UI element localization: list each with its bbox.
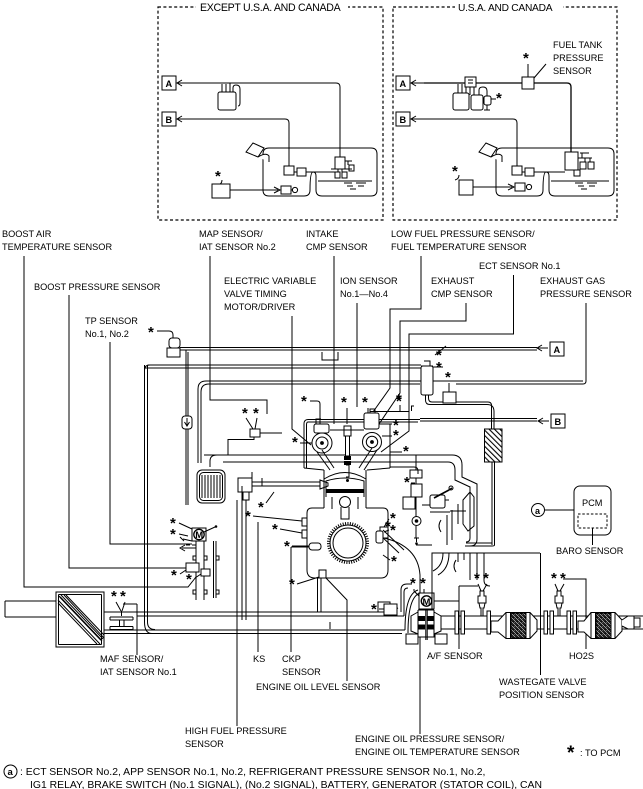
svg-text:No.1—No.4: No.1—No.4: [340, 289, 388, 299]
svg-text:B: B: [166, 115, 173, 125]
svg-text:*: *: [474, 570, 480, 587]
svg-text:M: M: [195, 530, 203, 541]
svg-text:*: *: [391, 553, 397, 570]
svg-text:B: B: [555, 417, 562, 427]
svg-text:*: *: [385, 518, 391, 535]
svg-text:*: *: [404, 474, 410, 491]
svg-text:U.S.A. AND CANADA: U.S.A. AND CANADA: [458, 3, 553, 14]
svg-text:*: *: [289, 576, 295, 593]
svg-text:IAT SENSOR No.2: IAT SENSOR No.2: [199, 242, 276, 252]
svg-text:: ECT SENSOR No.2, APP SENSOR: : ECT SENSOR No.2, APP SENSOR No.1, No.2…: [20, 767, 485, 778]
svg-text:MAP SENSOR/: MAP SENSOR/: [199, 229, 263, 239]
svg-text:POSITION SENSOR: POSITION SENSOR: [499, 690, 585, 700]
svg-text:SENSOR: SENSOR: [553, 66, 592, 76]
svg-text:BOOST PRESSURE SENSOR: BOOST PRESSURE SENSOR: [34, 282, 161, 292]
svg-text:VALVE TIMING: VALVE TIMING: [224, 289, 287, 299]
svg-text:*: *: [301, 393, 307, 410]
svg-text:*: *: [403, 443, 409, 460]
svg-text:EXHAUST GAS: EXHAUST GAS: [540, 276, 605, 286]
svg-text:*: *: [393, 427, 399, 444]
svg-text:BARO SENSOR: BARO SENSOR: [556, 546, 624, 556]
svg-text:*: *: [420, 575, 426, 592]
svg-text:A: A: [166, 79, 173, 89]
svg-text:PRESSURE SENSOR: PRESSURE SENSOR: [540, 289, 632, 299]
svg-text:*: *: [292, 434, 298, 451]
svg-text:*: *: [215, 168, 221, 185]
svg-text:IAT SENSOR No.1: IAT SENSOR No.1: [100, 667, 177, 677]
svg-text:*: *: [452, 163, 458, 180]
svg-text:SENSOR: SENSOR: [185, 739, 224, 749]
svg-text:TEMPERATURE SENSOR: TEMPERATURE SENSOR: [2, 242, 112, 252]
svg-text:EXHAUST: EXHAUST: [431, 276, 475, 286]
svg-text:*: *: [258, 499, 264, 516]
svg-text:*: *: [396, 391, 402, 408]
svg-text:*: *: [567, 743, 575, 764]
svg-text:*: *: [390, 522, 396, 539]
svg-text:*: *: [523, 50, 529, 67]
svg-text:MOTOR/DRIVER: MOTOR/DRIVER: [224, 302, 296, 312]
svg-text:*: *: [560, 570, 566, 587]
svg-text:ENGINE OIL PRESSURE SENSOR/: ENGINE OIL PRESSURE SENSOR/: [355, 734, 505, 744]
svg-text:SENSOR: SENSOR: [282, 667, 321, 677]
svg-text:: TO PCM: : TO PCM: [580, 748, 621, 758]
svg-text:*: *: [170, 526, 176, 543]
svg-text:HO2S: HO2S: [569, 651, 594, 661]
svg-text:A: A: [554, 345, 561, 355]
svg-text:*: *: [371, 601, 377, 618]
svg-text:KS: KS: [253, 654, 265, 664]
svg-text:*: *: [362, 394, 368, 411]
svg-text:*: *: [171, 567, 177, 584]
svg-text:FUEL TEMPERATURE SENSOR: FUEL TEMPERATURE SENSOR: [391, 242, 527, 252]
svg-text:B: B: [400, 115, 407, 125]
svg-text:*: *: [496, 90, 502, 107]
svg-text:ENGINE OIL TEMPERATURE SENSOR: ENGINE OIL TEMPERATURE SENSOR: [355, 747, 520, 757]
svg-text:CMP SENSOR: CMP SENSOR: [431, 289, 493, 299]
svg-text:*: *: [148, 324, 154, 341]
svg-text:*: *: [272, 521, 278, 538]
svg-text:HIGH FUEL PRESSURE: HIGH FUEL PRESSURE: [185, 726, 287, 736]
svg-text:*: *: [483, 570, 489, 587]
svg-text:*: *: [445, 369, 451, 386]
svg-text:ION SENSOR: ION SENSOR: [340, 276, 398, 286]
svg-text:BOOST AIR: BOOST AIR: [2, 229, 52, 239]
svg-text:IG1 RELAY, BRAKE SWITCH (No.1: IG1 RELAY, BRAKE SWITCH (No.1 SIGNAL), (…: [30, 780, 542, 789]
svg-text:A/F SENSOR: A/F SENSOR: [427, 651, 483, 661]
svg-text:PRESSURE: PRESSURE: [553, 53, 604, 63]
svg-text:A: A: [400, 79, 407, 89]
svg-text:CMP SENSOR: CMP SENSOR: [306, 242, 368, 252]
svg-text:EXCEPT U.S.A. AND CANADA: EXCEPT U.S.A. AND CANADA: [200, 2, 342, 14]
svg-text:MAF SENSOR/: MAF SENSOR/: [100, 654, 164, 664]
svg-text:No.1, No.2: No.1, No.2: [85, 329, 129, 339]
svg-text:*: *: [253, 405, 259, 422]
svg-text:FUEL TANK: FUEL TANK: [553, 40, 603, 50]
svg-text:M: M: [423, 597, 431, 608]
svg-text:*: *: [341, 394, 347, 411]
svg-text:LOW FUEL PRESSURE SENSOR/: LOW FUEL PRESSURE SENSOR/: [391, 229, 535, 239]
svg-text:PCM: PCM: [582, 498, 602, 508]
svg-text:ECT SENSOR No.1: ECT SENSOR No.1: [479, 261, 561, 271]
svg-text:WASTEGATE VALVE: WASTEGATE VALVE: [499, 677, 586, 687]
svg-text:a: a: [535, 506, 541, 516]
svg-text:*: *: [186, 571, 192, 588]
svg-text:INTAKE: INTAKE: [306, 229, 339, 239]
svg-text:ELECTRIC VARIABLE: ELECTRIC VARIABLE: [224, 276, 316, 286]
svg-text:a: a: [8, 767, 14, 778]
svg-text:ENGINE OIL LEVEL SENSOR: ENGINE OIL LEVEL SENSOR: [256, 682, 381, 692]
svg-text:TP SENSOR: TP SENSOR: [85, 316, 138, 326]
svg-text:CKP: CKP: [282, 654, 301, 664]
svg-text:*: *: [284, 538, 290, 555]
svg-text:*: *: [551, 570, 557, 587]
